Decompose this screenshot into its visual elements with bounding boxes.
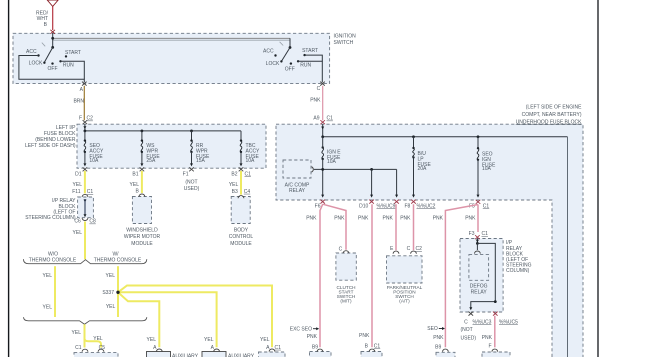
svg-text:C2: C2	[416, 246, 423, 252]
svg-text:YEL: YEL	[43, 273, 53, 279]
svg-text:C1: C1	[483, 203, 490, 209]
svg-text:B3: B3	[232, 189, 238, 195]
svg-text:YEL: YEL	[73, 182, 83, 188]
svg-text:USED): USED)	[184, 186, 200, 192]
svg-text:10A: 10A	[327, 159, 337, 165]
svg-text:W/O: W/O	[48, 251, 58, 257]
svg-text:RELAY: RELAY	[289, 188, 306, 194]
svg-text:YEL: YEL	[106, 273, 116, 279]
svg-text:PNK: PNK	[400, 216, 411, 222]
svg-text:OFF: OFF	[285, 66, 295, 72]
svg-text:COMPT, NEAR BATTERY): COMPT, NEAR BATTERY)	[522, 112, 582, 118]
svg-text:SWITCH: SWITCH	[334, 40, 354, 46]
svg-text:CONTROL: CONTROL	[229, 234, 254, 240]
svg-text:C1: C1	[87, 189, 94, 195]
svg-text:C8: C8	[89, 219, 96, 225]
svg-text:25A: 25A	[146, 158, 156, 164]
svg-text:YEL: YEL	[73, 230, 83, 236]
svg-text:EXC SEO: EXC SEO	[290, 326, 312, 332]
svg-text:%%UC9: %%UC9	[377, 203, 396, 209]
svg-text:YEL: YEL	[229, 182, 239, 188]
svg-text:PNK: PNK	[310, 98, 321, 104]
svg-text:C: C	[464, 320, 468, 326]
svg-text:C1: C1	[75, 345, 82, 351]
svg-text:C1: C1	[374, 343, 381, 349]
svg-text:PNK: PNK	[433, 216, 444, 222]
svg-text:IGNITION: IGNITION	[334, 34, 357, 40]
svg-text:PNK: PNK	[433, 335, 444, 341]
svg-text:START: START	[65, 50, 81, 56]
svg-text:B1: B1	[132, 171, 138, 177]
svg-text:ACC: ACC	[26, 49, 37, 55]
svg-text:%%UC5: %%UC5	[499, 320, 518, 326]
svg-text:10A: 10A	[246, 158, 256, 164]
svg-text:YEL: YEL	[72, 330, 82, 336]
svg-text:(LEFT SIDE OF ENGINE: (LEFT SIDE OF ENGINE	[526, 104, 582, 110]
svg-text:AUXILIARY: AUXILIARY	[228, 353, 255, 357]
svg-text:YEL: YEL	[106, 304, 116, 310]
svg-text:THERMO CONSOLE: THERMO CONSOLE	[94, 258, 142, 264]
svg-text:YEL: YEL	[130, 182, 140, 188]
svg-text:B9: B9	[435, 344, 441, 350]
svg-text:F3: F3	[469, 231, 475, 237]
svg-text:PNK: PNK	[383, 216, 394, 222]
svg-text:BODY: BODY	[234, 227, 249, 233]
svg-text:RUN: RUN	[300, 63, 311, 69]
svg-text:F11: F11	[72, 189, 80, 195]
svg-text:PNK: PNK	[307, 334, 318, 340]
svg-text:%%UC2: %%UC2	[417, 203, 436, 209]
svg-text:RUN: RUN	[63, 63, 74, 69]
svg-text:PNK: PNK	[482, 335, 493, 341]
svg-text:PNK: PNK	[465, 216, 476, 222]
svg-text:(NOT: (NOT	[461, 327, 473, 333]
svg-text:F: F	[488, 343, 491, 349]
svg-text:15A: 15A	[196, 158, 206, 164]
svg-text:COLUMN): COLUMN)	[506, 268, 530, 274]
svg-text:WIPER MOTOR: WIPER MOTOR	[124, 234, 161, 240]
svg-text:START: START	[302, 48, 318, 54]
svg-text:MODULE: MODULE	[230, 241, 252, 247]
svg-text:(NOT: (NOT	[185, 179, 197, 185]
svg-text:C: C	[339, 247, 343, 253]
svg-text:S337: S337	[102, 290, 114, 296]
svg-text:F6: F6	[315, 203, 321, 209]
svg-text:C1: C1	[275, 345, 282, 351]
svg-text:UNDERHOOD FUSE BLOCK: UNDERHOOD FUSE BLOCK	[516, 119, 583, 125]
svg-text:F1: F1	[183, 171, 189, 177]
svg-text:YEL: YEL	[93, 336, 103, 342]
svg-text:USED): USED)	[461, 336, 477, 342]
svg-text:10A: 10A	[482, 166, 492, 172]
svg-text:LEFT SIDE OF DASH): LEFT SIDE OF DASH)	[25, 143, 76, 149]
svg-text:STEERING COLUMN): STEERING COLUMN)	[25, 215, 76, 221]
svg-text:C1: C1	[245, 171, 252, 177]
svg-text:W/: W/	[112, 251, 119, 257]
svg-text:PNK: PNK	[359, 333, 370, 339]
svg-text:F8: F8	[404, 203, 410, 209]
svg-text:BRN: BRN	[73, 99, 84, 105]
svg-text:LOCK: LOCK	[266, 61, 280, 67]
svg-text:LOCK: LOCK	[29, 61, 43, 67]
svg-text:PNK: PNK	[358, 216, 369, 222]
svg-text:D10: D10	[359, 203, 368, 209]
svg-text:B9: B9	[312, 344, 318, 350]
svg-text:C1: C1	[327, 116, 334, 122]
svg-text:WINDSHIELD: WINDSHIELD	[126, 227, 158, 233]
svg-text:C: C	[317, 86, 321, 92]
svg-text:C1: C1	[482, 231, 489, 237]
svg-text:F: F	[79, 116, 82, 122]
svg-text:%%UC3: %%UC3	[473, 320, 492, 326]
svg-text:OFF: OFF	[48, 66, 58, 72]
svg-text:YEL: YEL	[147, 337, 157, 343]
svg-text:20A: 20A	[418, 166, 428, 172]
svg-text:YEL: YEL	[260, 337, 270, 343]
svg-text:C4: C4	[244, 189, 251, 195]
svg-text:SEO: SEO	[427, 326, 438, 332]
svg-text:C: C	[407, 246, 411, 252]
svg-text:B2: B2	[231, 171, 237, 177]
svg-text:PNK: PNK	[334, 216, 345, 222]
svg-text:THERMO CONSOLE: THERMO CONSOLE	[29, 258, 77, 264]
svg-text:(M/T): (M/T)	[340, 299, 352, 304]
svg-text:RELAY: RELAY	[471, 289, 488, 295]
svg-text:MODULE: MODULE	[131, 241, 153, 247]
svg-text:D1: D1	[75, 171, 82, 177]
svg-text:(A/T): (A/T)	[399, 299, 410, 304]
svg-text:YEL: YEL	[43, 304, 53, 310]
svg-text:AUXILIARY: AUXILIARY	[172, 353, 199, 357]
svg-text:YEL: YEL	[204, 337, 214, 343]
svg-text:A9: A9	[313, 116, 319, 122]
svg-text:ACC: ACC	[263, 49, 274, 55]
svg-text:10A: 10A	[89, 158, 99, 164]
svg-text:PNK: PNK	[306, 216, 317, 222]
svg-text:C2: C2	[87, 116, 94, 122]
